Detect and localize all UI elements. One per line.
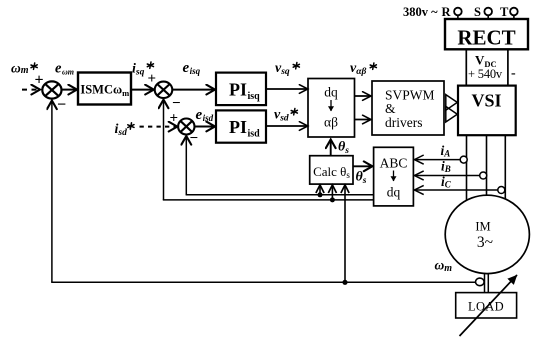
block dq to alpha-beta transform <box>308 79 355 138</box>
wire: ISMC to S2 <box>131 89 154 91</box>
junction dot on omega line <box>342 280 347 285</box>
svg-text:−: − <box>172 96 181 112</box>
svg-text:380v ~: 380v ~ <box>403 5 438 19</box>
wire: theta_s up to dq block <box>330 140 332 156</box>
junction dot on i_sd line <box>318 192 323 197</box>
summing junction S2 <box>155 82 173 98</box>
wire: SVPWM to VSI double open arrow <box>446 95 458 122</box>
wire: dq block to SVPWM upper <box>355 95 372 97</box>
summing junction S3 <box>178 119 194 135</box>
block PI_isd <box>216 110 266 142</box>
svg-text:−: − <box>57 97 66 114</box>
wire: i_sd* dashed input <box>140 126 178 128</box>
variable load diagonal arrow <box>460 275 518 336</box>
block LOAD <box>456 293 517 318</box>
block PI_isq <box>216 73 266 106</box>
block RECT rectifier <box>445 19 528 50</box>
wire: omega feedback vertical into S1 <box>51 101 53 283</box>
wire: RECT to VSI right DC rail <box>507 49 509 85</box>
svg-text:ISMCωm: ISMCωm <box>80 83 129 98</box>
wire: dq block to SVPWM lower <box>355 119 372 121</box>
wire: S2 to PI_isq <box>173 89 216 91</box>
wire: Calc input 3 from omega line <box>344 185 346 282</box>
svg-text:&: & <box>385 101 396 116</box>
wire: i_sd feedback horizontal <box>186 194 374 196</box>
wire: i_sq feedback vertical into S2 <box>163 100 165 200</box>
svg-text:IM: IM <box>475 220 490 234</box>
terminal R <box>442 5 462 19</box>
induction motor IM circle <box>445 195 529 273</box>
svg-text:+ 540v: + 540v <box>468 67 503 81</box>
svg-text:-: - <box>511 66 516 81</box>
wire: S1 to ISMC <box>62 89 77 91</box>
motor shaft double line <box>485 273 489 292</box>
terminal T <box>500 5 518 19</box>
block VSI inverter <box>458 86 516 136</box>
wire: i_sq feedback horizontal <box>163 199 374 201</box>
wire: i_A to ABC block <box>414 159 460 161</box>
wire: theta_s right to ABC block <box>354 165 373 167</box>
wire: VSI phase C down to motor <box>504 135 506 202</box>
wire: PI_isq to dq block <box>266 88 308 90</box>
current sensor B <box>480 172 487 179</box>
block ABC to dq transform <box>374 147 414 206</box>
wire: RECT to VSI left DC rail <box>465 49 467 85</box>
svg-text:Calc θs: Calc θs <box>313 164 350 180</box>
wire: omega feedback horizontal <box>51 281 475 283</box>
block SVPWM and drivers <box>372 81 444 135</box>
svg-text:T: T <box>500 5 509 19</box>
wire: omega_m* reference dashed input <box>22 89 40 91</box>
svg-text:+: + <box>170 111 179 127</box>
wire: i_B to ABC block <box>414 175 479 177</box>
svg-text:RECT: RECT <box>457 26 515 50</box>
svg-text:R: R <box>442 5 452 19</box>
summing junction S1 <box>42 81 61 98</box>
wire: i_C to ABC block <box>414 189 498 191</box>
svg-text:S: S <box>474 5 481 19</box>
block Calc theta_s <box>310 156 353 184</box>
svg-text:ABC: ABC <box>380 156 408 171</box>
terminal S <box>474 5 492 19</box>
wire: Calc input 2 from i_sq line <box>331 185 333 200</box>
svg-text:dq: dq <box>324 85 338 100</box>
wire: Calc input 1 from i_sd line <box>319 185 321 195</box>
current sensor C <box>498 187 505 194</box>
svg-text:3~: 3~ <box>477 234 493 251</box>
wire: VSI phase A down to motor <box>466 135 468 203</box>
junction dot on i_sq line <box>330 197 335 202</box>
svg-text:drivers: drivers <box>385 115 423 130</box>
block ISMC speed controller <box>78 73 131 105</box>
current sensor A <box>460 156 467 163</box>
svg-text:dq: dq <box>387 185 401 200</box>
svg-text:+: + <box>148 71 157 87</box>
wire: S3 to PI_isd <box>195 126 215 128</box>
svg-text:αβ: αβ <box>324 115 338 130</box>
svg-text:VSI: VSI <box>471 91 501 111</box>
wire: i_sd feedback vertical into S3 <box>185 136 187 195</box>
svg-text:+: + <box>35 72 44 89</box>
speed sensor circle on motor shaft <box>476 278 485 286</box>
wire: VSI phase B down to motor <box>486 135 488 196</box>
svg-text:−: − <box>190 131 199 147</box>
svg-text:LOAD: LOAD <box>468 300 504 314</box>
wire: PI_isd to dq block <box>266 125 308 127</box>
